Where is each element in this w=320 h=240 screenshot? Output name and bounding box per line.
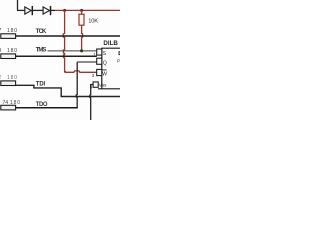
pin box fragment right edge xyxy=(119,52,122,55)
wire red stub rail to R10K xyxy=(81,10,83,14)
wire TDO vertical up to gray pin wire xyxy=(76,62,77,108)
wire TDI line with jogs to chip xyxy=(16,85,120,96)
pin box 4 xyxy=(93,82,98,87)
IC U1 DIL box xyxy=(98,48,120,89)
wire VCC rail red xyxy=(55,9,120,11)
wire D2 cathode black xyxy=(51,9,56,11)
wire D1 to D2 xyxy=(32,9,43,11)
wire anode D1 xyxy=(17,9,25,11)
wire TCK line xyxy=(16,35,120,37)
svg-text:Vss: Vss xyxy=(99,82,107,87)
svg-text:2: 2 xyxy=(0,75,2,81)
svg-text:W: W xyxy=(102,72,107,78)
svg-text:TCK: TCK xyxy=(36,29,47,35)
svg-text:DILB: DILB xyxy=(103,40,118,47)
svg-text:9: 9 xyxy=(0,48,2,54)
wire ground vss vertical xyxy=(90,85,93,121)
pin box 2 xyxy=(97,58,102,64)
svg-text:P: P xyxy=(117,58,120,64)
svg-text:TMS: TMS xyxy=(36,47,47,53)
wire gray chip pin row2 xyxy=(77,61,97,63)
node junction rail x81 xyxy=(80,9,83,12)
svg-text:180: 180 xyxy=(7,48,17,54)
wire red vertical A x64 rail to pin row3 xyxy=(63,10,66,71)
node junction R10K to pin1 wire xyxy=(80,49,83,52)
svg-text:180: 180 xyxy=(7,75,17,81)
pin box 3 xyxy=(97,69,102,75)
svg-text:Q: Q xyxy=(103,60,107,66)
wire TDO line xyxy=(16,107,78,109)
wire pin1 thin line xyxy=(48,50,97,52)
resistor R7 body xyxy=(1,34,16,39)
resistor R4 body xyxy=(1,105,16,110)
resistor R9 body xyxy=(1,54,16,59)
node junction rail x64 xyxy=(63,9,66,12)
resistor 10K body xyxy=(79,14,84,25)
svg-text:TDI: TDI xyxy=(36,81,46,87)
diode D1 xyxy=(25,6,33,15)
diode D2 xyxy=(43,6,50,15)
resistor R2 body xyxy=(1,81,16,86)
pin box 1 xyxy=(97,49,102,55)
wire TMS line xyxy=(16,55,97,57)
wire red vertical B below 10K xyxy=(82,25,83,51)
wire top entry vertical xyxy=(17,0,19,10)
wire red horizontal to chip pin W xyxy=(65,71,97,72)
svg-text:10K: 10K xyxy=(88,19,98,25)
